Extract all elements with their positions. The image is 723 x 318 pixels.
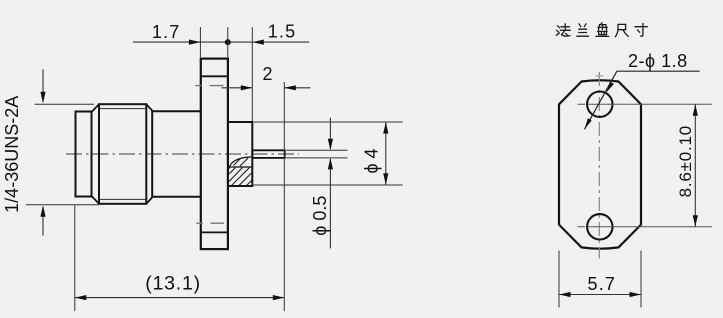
dim phi0.5 <box>329 118 331 249</box>
arrow right at flange left <box>189 40 201 45</box>
svg-text:5.7: 5.7 <box>587 274 616 294</box>
ext line insulator right <box>251 27 253 121</box>
hex body chamfer bottom-right <box>146 197 152 203</box>
arrow up <box>383 122 388 134</box>
arrow right at 252.3 <box>241 85 253 90</box>
thread callout arrow bottom <box>42 207 44 236</box>
ext line pin end <box>283 82 285 311</box>
connector collar (left end) <box>76 112 92 197</box>
hex body chamfer top-left <box>92 104 99 112</box>
ext line flange left <box>199 27 201 57</box>
dim 5.7 <box>559 294 641 296</box>
arrow right end <box>273 295 285 300</box>
hatch upper region (between arc and pin) <box>234 158 249 166</box>
arrow down <box>383 173 388 185</box>
solder cup arc <box>229 157 251 169</box>
hole top <box>587 92 612 117</box>
ext lines pin top/bottom <box>286 150 348 158</box>
arrow left end <box>75 295 87 300</box>
title (CJK drawn as strokes) <box>556 23 647 37</box>
flange chamfer line bottom <box>201 231 228 233</box>
svg-text:ϕ 0.5: ϕ 0.5 <box>310 196 330 236</box>
dim 8.6 +-0.10 <box>694 104 696 227</box>
hole top horizontal centermark <box>578 103 713 105</box>
insulator block right of flange <box>228 122 252 186</box>
thread minor line top <box>100 108 146 110</box>
arrow left <box>559 292 571 297</box>
hatch lower region <box>229 168 252 186</box>
svg-text:1.5: 1.5 <box>268 22 297 42</box>
svg-text:1.7: 1.7 <box>152 22 181 42</box>
leader arrowhead at end <box>585 118 592 129</box>
reduced section bottom line <box>152 196 200 198</box>
center pin <box>252 150 284 158</box>
dim 2 <box>222 87 311 89</box>
svg-text:2-ϕ 1.8: 2-ϕ 1.8 <box>628 51 688 71</box>
arrow up to pin bottom <box>328 158 333 170</box>
ext lines phi4 <box>254 122 403 185</box>
ext lines 5.7 <box>559 251 641 308</box>
small cross tick at centerline top <box>596 75 604 77</box>
thread callout top ext line <box>35 103 94 105</box>
thread callout arrow top <box>42 69 44 101</box>
flange hole centerline top (side view) <box>195 85 223 87</box>
plate vertical centerline <box>598 72 600 259</box>
flange chamfer line top <box>201 75 228 77</box>
reduced section top line <box>152 110 200 112</box>
hex body chamfer bottom-left <box>92 196 99 204</box>
hole bottom <box>587 214 612 239</box>
dim line 1.7 / 1.5 <box>133 41 309 43</box>
leader diagonal <box>585 71 617 129</box>
thread minor line bottom <box>100 198 146 200</box>
flange hole centerline bottom (side view) <box>196 222 224 224</box>
thread callout bottom ext line <box>26 204 99 206</box>
ext line flange right / dot <box>227 27 229 57</box>
leader arrowhead at circle <box>606 82 614 93</box>
connector hex body <box>99 104 146 204</box>
flange plate front view <box>559 80 641 248</box>
ext line left <box>74 206 76 312</box>
svg-text:1/4-36UNS-2A: 1/4-36UNS-2A <box>2 96 22 213</box>
arrow left at 284.3 <box>284 85 296 90</box>
arrow up <box>693 104 698 116</box>
hole bottom horizontal centermark <box>578 226 713 228</box>
flange side view <box>201 59 228 250</box>
svg-text:ϕ 4: ϕ 4 <box>361 148 381 173</box>
dim (13.1) <box>75 297 284 299</box>
svg-text:8.6±0.10: 8.6±0.10 <box>676 125 695 197</box>
hex body right side edge <box>151 111 153 198</box>
leader 2-phi1.8: underline <box>617 70 700 72</box>
svg-text:2: 2 <box>262 64 272 84</box>
arrow right <box>630 292 642 297</box>
hex body chamfer top-right <box>146 104 152 110</box>
centerline of connector axis <box>66 153 299 155</box>
insulator inner boundary line <box>229 166 252 168</box>
svg-text:(13.1): (13.1) <box>145 273 201 295</box>
arrow left at x=252.3 <box>252 40 263 45</box>
arrow down to pin top <box>328 139 333 151</box>
dim phi4 <box>385 122 387 185</box>
arrow down <box>693 215 698 227</box>
dot at flange right <box>225 39 231 45</box>
